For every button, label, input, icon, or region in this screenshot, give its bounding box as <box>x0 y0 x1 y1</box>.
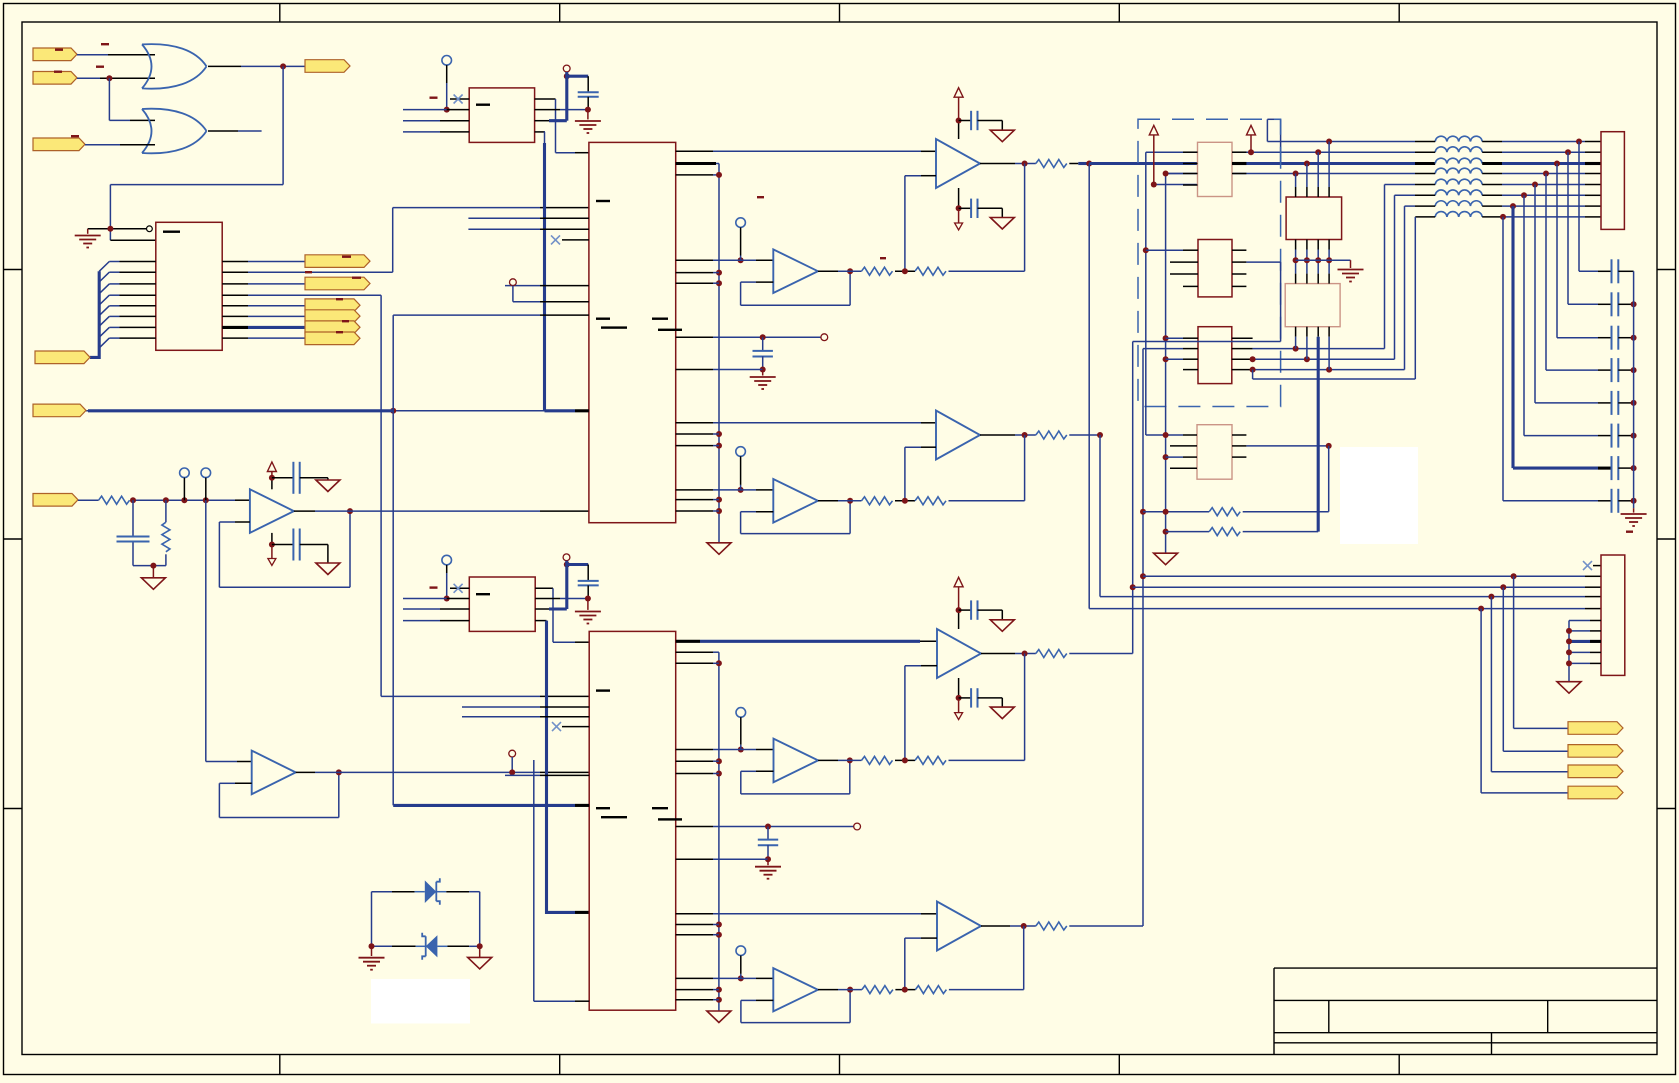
pin X1 in1 <box>450 98 469 100</box>
pin U3 row369 <box>676 369 713 371</box>
wire J2 tie row4 <box>1569 662 1590 664</box>
wire OUT feedback run <box>110 66 283 240</box>
pin U7 +in <box>921 150 936 152</box>
wire C5 bottom <box>587 585 589 598</box>
junction N3 <box>181 497 187 503</box>
diode D2 <box>422 933 437 960</box>
wire row1 left <box>1267 141 1415 143</box>
pin J2 row596 <box>1585 596 1601 598</box>
junction rail U3 y511 <box>716 508 722 514</box>
op-amp U6 <box>252 751 296 795</box>
bus entry U2 pin 8 <box>99 338 119 348</box>
ic U4 <box>589 631 676 1010</box>
group outline (dashed) <box>1138 119 1281 406</box>
junction R15 l2 <box>1163 509 1169 515</box>
bus entry U2 pin 6 <box>99 316 119 326</box>
pin U13 +in <box>921 913 937 915</box>
wire U4 row924 <box>713 924 719 926</box>
wire VA1 stem <box>1153 135 1155 185</box>
wire C12 to gnd <box>978 610 1003 620</box>
wire U5 feedback <box>219 511 350 587</box>
capacitor C20 <box>1612 259 1619 283</box>
wire C9 to gnd <box>978 121 1003 131</box>
wire U3 row151 to U7 <box>713 150 921 152</box>
pin U11 V+ <box>958 610 960 629</box>
junction rail U4 y663 <box>716 660 722 666</box>
wire T6 b2 <box>1306 337 1308 360</box>
pin T3 l1 <box>1183 337 1198 339</box>
wire row260 <box>713 259 756 261</box>
wire row337 <box>713 336 821 338</box>
pin U3 row410 <box>575 409 589 412</box>
pin U9 +in <box>921 422 936 424</box>
pin J1 row6 <box>1585 194 1601 196</box>
junction U10 out node <box>847 498 853 504</box>
junction U13 out node <box>1021 923 1027 929</box>
junction row359 a <box>1304 356 1310 362</box>
pin T5 bot 3 <box>1317 240 1319 250</box>
pin J1 row8 <box>1585 216 1601 218</box>
pin U4 row717 <box>540 716 589 718</box>
junction L3 tap <box>1554 161 1560 167</box>
pin U2 right 6 <box>222 315 248 317</box>
capacitor C27 <box>1612 489 1619 513</box>
pin T5 top 2 <box>1306 187 1308 197</box>
junction U12 out node <box>847 757 853 763</box>
pin U4 row773 <box>676 773 713 775</box>
wire rail corner 2 <box>713 652 719 1011</box>
capacitor C10 <box>971 199 977 218</box>
junction U11 V- node <box>956 695 962 701</box>
wire C4 bottom <box>587 97 589 110</box>
pad P3 <box>563 554 570 561</box>
wire IN2 to U1A <box>77 77 100 79</box>
junction U8 out node <box>847 268 853 274</box>
pin T2 r4 <box>1232 285 1246 287</box>
no-connect U4 row726 <box>552 722 561 731</box>
pin U13 -in <box>921 937 937 939</box>
wire cap drop 4 <box>1546 174 1598 371</box>
wire row8 coil <box>1415 216 1435 218</box>
junction rail U4 y773 <box>716 771 722 777</box>
wire gnd stub D right <box>479 946 481 957</box>
junction v1165 top <box>1163 171 1169 177</box>
testpoint TP4 <box>442 555 452 573</box>
junction U11 out node <box>1022 651 1028 657</box>
pin U4 row978 <box>676 977 713 979</box>
wire P2 run <box>513 286 540 302</box>
pin X1 out4 <box>535 131 545 133</box>
pin U2 left 7 <box>120 326 156 328</box>
op-amp U10 <box>773 479 818 523</box>
pin U2 CLK <box>110 239 155 241</box>
pin J2 tie 2 <box>1590 640 1601 643</box>
junction L5 tap <box>1532 182 1538 188</box>
junction tie1 <box>1566 628 1572 634</box>
pin U10 out <box>818 500 838 502</box>
pin U3 row272 <box>676 272 713 274</box>
capacitor C11 <box>758 840 778 846</box>
pin C21 right <box>1618 303 1633 305</box>
pin U4 row652 <box>676 651 713 653</box>
pin T3 l2 <box>1183 348 1198 350</box>
pin U3 row489 <box>676 489 713 491</box>
filter T6 <box>1285 284 1340 327</box>
resistor R15 <box>1209 508 1240 516</box>
pin X2 in1 <box>450 587 469 589</box>
diode D1 <box>425 878 440 905</box>
wire row587 <box>1133 586 1585 588</box>
junction D node left <box>369 943 375 949</box>
pin C25 left <box>1598 435 1612 437</box>
pin T3 r1 <box>1232 337 1253 339</box>
pin C24 right <box>1618 402 1633 404</box>
pin X2 out1 <box>535 587 553 589</box>
testpoint TP7 <box>736 708 746 745</box>
wire R2 branch <box>165 500 167 565</box>
oscillator X2 <box>469 577 535 631</box>
wire J2 tie rail <box>1568 621 1570 682</box>
wire T5-T6 3 <box>1317 250 1319 274</box>
testpoint TP5 <box>736 218 746 256</box>
ic U3 <box>589 142 676 522</box>
wire R15 right <box>1243 446 1329 512</box>
wire U3 row285 stub <box>505 285 540 287</box>
power VEE U11 <box>955 713 963 720</box>
wire T4 r2 run <box>1246 445 1328 447</box>
wire L6 to J1 <box>1502 194 1585 196</box>
wire L5 to J1 <box>1502 184 1585 186</box>
wire U4 row913 to U13 <box>713 913 921 915</box>
inductor L6 <box>1435 190 1482 195</box>
wire J2 tie row0 <box>1569 620 1590 622</box>
pin T5 bot 2 <box>1306 240 1308 250</box>
wire T6 b4 <box>1328 337 1330 370</box>
wire bus flag run (thick) <box>88 409 393 412</box>
bus entry U2 pin 1 <box>99 262 119 272</box>
capacitor C3 <box>293 529 299 561</box>
pin U7 out <box>980 163 1015 165</box>
pin U11 -in <box>921 665 937 667</box>
inductor L4 <box>1435 168 1482 173</box>
wire X2 out1 run <box>553 588 575 642</box>
capacitor C21 <box>1612 292 1619 316</box>
junction tie3 <box>1566 649 1572 655</box>
testpoint TP1 <box>180 468 190 500</box>
pin T1 r2 <box>1232 162 1246 165</box>
or-gate U1A <box>142 44 207 89</box>
wire drop1 <box>1514 576 1568 728</box>
inverting bubble U2 OE <box>147 226 153 232</box>
pin D2 cathode <box>392 945 416 947</box>
capacitor C13 <box>971 688 977 707</box>
wire U3 row445 <box>713 445 719 447</box>
junction row369 a <box>1326 367 1332 373</box>
pin U3 row163 (thick) <box>676 162 716 165</box>
wire T5 top 4 <box>1328 142 1330 188</box>
wire C8 bot stem <box>762 356 764 369</box>
wire row5 coil <box>1385 184 1416 186</box>
wire T6 b1 <box>1295 337 1297 349</box>
pin T1 l1 <box>1183 151 1198 153</box>
pin U4 row934 <box>676 934 713 936</box>
connector J1 <box>1601 132 1624 230</box>
pad P2 <box>510 279 517 286</box>
wire U5 V- to C3 <box>272 544 294 546</box>
port flag DOUT4 <box>1568 786 1623 799</box>
pin U2 left 8 <box>120 337 156 339</box>
inductor L3 <box>1435 158 1482 163</box>
wire D1 to right <box>469 892 480 947</box>
title block <box>1274 968 1657 1054</box>
op-amp U5 <box>250 489 294 533</box>
wire rail v1165 <box>1166 174 1183 554</box>
wire main line (thick) <box>1089 162 1197 165</box>
pin U5 -in <box>235 521 250 523</box>
wire row6 coil <box>1395 194 1416 196</box>
junction N4 <box>203 497 209 503</box>
wire T5 top 3 <box>1317 152 1319 187</box>
junction v1146 t2 <box>1143 247 1149 253</box>
wire U4 row761 <box>713 760 719 762</box>
resistor R12 <box>1036 922 1067 930</box>
port flag AIN2 <box>33 404 86 417</box>
inductor L5 <box>1435 179 1482 184</box>
wire X2 clk (thick) <box>549 561 567 609</box>
wire row379 <box>1253 217 1416 379</box>
pin U5 V+ <box>271 478 273 490</box>
pin U7 -in <box>921 175 936 177</box>
pin T3 r3 <box>1232 358 1253 360</box>
op-amp U9 <box>936 411 980 460</box>
junction L8 tap <box>1500 214 1506 220</box>
wire T3 l1 <box>1166 337 1183 339</box>
pin J1 row3 <box>1585 162 1601 165</box>
pin U2 OE <box>88 228 147 230</box>
pin T4 l3 <box>1183 456 1197 458</box>
wire U4 row773 <box>713 773 719 775</box>
wire row489 <box>713 489 756 491</box>
junction X1 clk node <box>564 73 570 79</box>
wire caprail gnd stub <box>1633 508 1635 512</box>
wire U12 out <box>838 759 862 761</box>
wire rail v1146 <box>1146 152 1183 435</box>
pin L4 right <box>1482 173 1502 175</box>
ic U2 <box>156 222 222 350</box>
wire gnd stub X2 <box>587 599 589 610</box>
pin T2 r2 <box>1232 261 1246 263</box>
junction caprail 8 <box>1631 498 1637 504</box>
junction rail U4 y761 <box>716 758 722 764</box>
pin U2 left 6 <box>120 315 156 317</box>
resistor R4 <box>862 267 893 275</box>
wire row859 <box>713 858 768 860</box>
wire R6 out <box>1069 434 1100 436</box>
ground GND3 <box>575 612 601 624</box>
resistor R7 <box>862 497 893 505</box>
inductor L7 <box>1435 201 1482 206</box>
capacitor C4 <box>578 92 599 97</box>
inductor L8 <box>1435 212 1482 217</box>
pin J1 row4 <box>1585 173 1601 175</box>
wire U14 fb <box>741 990 850 1023</box>
ground AGND5 <box>707 543 731 555</box>
wire U2 out4 long run <box>248 295 540 696</box>
pin U2 left 2 <box>120 271 156 273</box>
wire L2 to J1 <box>1502 151 1585 153</box>
pin L3 right <box>1482 162 1502 165</box>
resistor R13 <box>862 986 893 994</box>
ground AGND9 <box>990 620 1014 632</box>
pin T5 bot 1 <box>1295 240 1297 250</box>
wire v1089 <box>1089 164 1585 609</box>
pin T2 l3 <box>1170 273 1198 275</box>
ground AGND1 <box>141 578 165 590</box>
power VCC U7 <box>954 88 963 98</box>
pin U2 left 5 <box>120 305 156 307</box>
pin J2 tie 0 <box>1590 620 1601 622</box>
wire T5 top 2 <box>1306 164 1308 188</box>
port flag IN3 <box>33 138 85 151</box>
wire R13-R14 <box>895 989 915 991</box>
junction T5T6 2 <box>1304 257 1310 263</box>
wire AIN2 run <box>86 410 545 412</box>
wire X1 out2 <box>560 109 589 111</box>
junction N5 <box>150 563 156 569</box>
pin U4 row924 <box>676 924 713 926</box>
junction bus tap <box>390 408 396 414</box>
junction U7 out node <box>1022 161 1028 167</box>
wire D2 cathode stub <box>416 945 426 947</box>
pin U4 row641 (thick) <box>676 640 700 643</box>
pin U1B in1 <box>130 119 155 121</box>
power VA1 <box>1149 125 1158 134</box>
wire vert v393 <box>392 315 394 805</box>
pin C24 left <box>1598 402 1612 404</box>
wire row978 <box>713 977 756 979</box>
capacitor C1 <box>117 537 150 542</box>
pin T2 r1 <box>1232 249 1246 251</box>
pin L8 right <box>1482 216 1502 218</box>
junction row348 a <box>1293 346 1299 352</box>
blank label patch 1 <box>371 979 470 1024</box>
pin U5 +in <box>235 499 250 501</box>
pin C20 right <box>1618 270 1633 272</box>
wire v1143 <box>1142 349 1144 926</box>
resistor R10 <box>862 756 893 764</box>
wire C4 top <box>587 76 589 92</box>
pin T6 top 2 <box>1306 274 1308 284</box>
pin U8 out <box>818 270 838 272</box>
pin U4 row707 <box>540 706 589 708</box>
junction U5 out node <box>347 508 353 514</box>
resistor R16 <box>1209 528 1240 536</box>
resistor R11 <box>915 756 946 764</box>
pin C23 left <box>1598 369 1612 371</box>
wire R8 out <box>949 500 1025 502</box>
junction drop3 <box>1488 594 1494 600</box>
wire row4 left <box>1166 173 1198 175</box>
wire RC join <box>133 565 166 567</box>
pin U1A in1 <box>108 54 155 56</box>
power VA2 <box>1247 125 1256 134</box>
junction N1 <box>130 497 136 503</box>
pin T1 l3 <box>1183 173 1198 175</box>
junction v1165 y435 <box>1163 432 1169 438</box>
wire row4 mid <box>1232 173 1415 175</box>
wire U7 out <box>1015 163 1036 165</box>
pin T2 l4 <box>1183 285 1198 287</box>
pin T6 top 3 <box>1317 274 1319 284</box>
pin C27 right <box>1618 500 1633 502</box>
pin U13 out <box>981 925 1010 927</box>
port flag DOUT1 <box>1568 722 1623 735</box>
pin U6 +in <box>237 761 252 763</box>
pin U12 -in <box>756 770 774 772</box>
wire drop4 <box>1481 609 1568 793</box>
junction R6 node <box>1097 432 1103 438</box>
wire T4 l3 <box>1166 456 1183 458</box>
filter T3 <box>1198 327 1232 384</box>
wire row348 <box>1253 185 1385 349</box>
ground AGND6 <box>990 130 1014 142</box>
op-amp U8 <box>773 249 818 293</box>
pin U4 row805 <box>575 804 589 807</box>
ground AGND10 <box>990 707 1014 719</box>
junction rail U4 y989 <box>716 987 722 993</box>
bus entry U2 pin 4 <box>99 295 119 305</box>
junction U11 V+ node <box>956 607 962 613</box>
capacitor C25 <box>1612 424 1619 448</box>
junction T4r2 <box>1326 443 1332 449</box>
wire U4 row989 <box>713 989 719 991</box>
wire X2 row3 <box>403 608 440 610</box>
junction U14 out node <box>847 987 853 993</box>
filter T4 <box>1197 425 1232 480</box>
wire T5-T6 4 <box>1328 250 1330 274</box>
pin X1 row2 <box>447 109 470 111</box>
power VCC U5 <box>267 462 276 472</box>
pin X1 row4 <box>440 131 469 133</box>
pin L5 left <box>1415 184 1435 186</box>
wire R12 out <box>1069 925 1143 927</box>
pin U10 -in <box>756 511 773 513</box>
pin D2 anode <box>447 945 469 947</box>
wire U4 row717 <box>462 716 540 718</box>
wire row7 coil <box>1405 205 1416 207</box>
pin U14 out <box>818 989 838 991</box>
resistor R9 <box>1036 650 1067 658</box>
pin X2 row4 <box>440 620 469 622</box>
pin U4 left row772 <box>540 771 589 773</box>
filter T5 <box>1286 197 1342 240</box>
junction main net node <box>1086 161 1092 167</box>
pin L7 right <box>1482 205 1502 207</box>
junction rail U3 y283 <box>716 280 722 286</box>
wire U7 V+ to C9 <box>959 120 972 122</box>
wire TP8 stem2 <box>740 974 742 979</box>
wire C8 gnd stub <box>762 370 764 376</box>
wire D1 anode stub <box>415 891 425 893</box>
wire VEE stem U7 <box>958 208 960 223</box>
junction U8 +in node <box>738 257 744 263</box>
pin J2 tie 1 <box>1590 630 1601 632</box>
pin U5 V- <box>271 533 273 545</box>
wire TP6 stem2 <box>740 485 742 490</box>
wire C5 top <box>587 565 589 581</box>
wire T5-T6 1 <box>1295 250 1297 274</box>
wire U10 out <box>838 500 862 502</box>
